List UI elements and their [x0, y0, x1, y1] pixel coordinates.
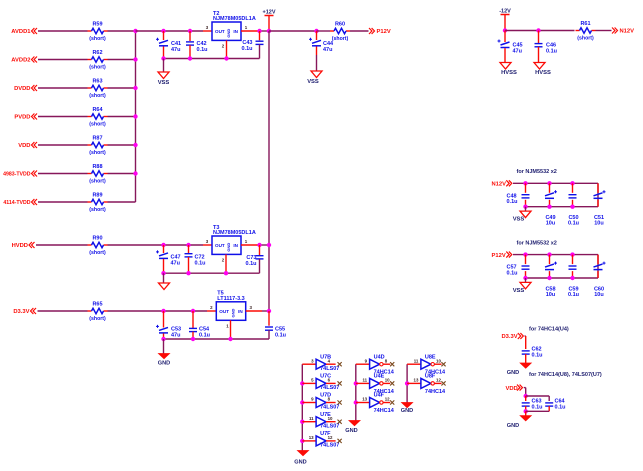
wire U4 input bus: [355, 364, 357, 420]
ground GND C62: [507, 363, 531, 376]
svg-text:U8F: U8F: [425, 374, 436, 380]
svg-text:0.1u: 0.1u: [241, 46, 252, 52]
svg-text:P12V: P12V: [492, 253, 506, 259]
wire T3 OUT pin stub: [203, 244, 212, 246]
svg-text:10u: 10u: [546, 292, 555, 298]
svg-text:47u: 47u: [171, 261, 180, 267]
junction C49 bottom: [547, 205, 551, 209]
wire C45 top stub: [504, 31, 506, 43]
buffer U7F 74LS07: [302, 431, 339, 449]
svg-text:N12V: N12V: [620, 29, 635, 35]
wire C41 top stub: [163, 31, 165, 40]
power -12V: [499, 8, 511, 30]
svg-text:VSS: VSS: [513, 217, 525, 223]
svg-text:VSS: VSS: [158, 80, 170, 86]
wire HVDD to R90: [36, 244, 88, 246]
resistor R60: [330, 22, 350, 43]
wire C43 bottom stub: [259, 44, 261, 58]
svg-text:HVSS: HVSS: [535, 70, 551, 76]
svg-text:U7B: U7B: [320, 354, 331, 360]
resistor R89: [88, 193, 108, 214]
svg-text:IN: IN: [238, 309, 243, 314]
svg-text:10: 10: [385, 378, 390, 383]
svg-text:74LS07: 74LS07: [320, 443, 339, 449]
no-connect U7D output: [338, 400, 342, 404]
svg-text:AVDD2: AVDD2: [11, 58, 30, 64]
port VDD bypass: [506, 385, 523, 392]
junction C58 top: [547, 252, 551, 256]
svg-text:for 74HC14(U4): for 74HC14(U4): [529, 327, 569, 333]
port DVDD: [14, 85, 37, 92]
svg-text:10u: 10u: [546, 221, 555, 227]
svg-text:R61: R61: [580, 21, 590, 27]
svg-text:12: 12: [436, 378, 441, 383]
svg-text:GND: GND: [158, 361, 170, 367]
svg-text:4983-TVDD: 4983-TVDD: [3, 172, 31, 178]
wire C42 bottom stub: [189, 45, 191, 58]
svg-text:74LS07: 74LS07: [320, 366, 339, 372]
wire AVDD2 to R62: [38, 59, 88, 61]
capacitor C44 47u: [309, 38, 334, 53]
junction C58 bottom: [547, 276, 551, 280]
wire C60 top stub: [597, 255, 599, 265]
regulator T5 LT1117-3.3: [210, 291, 252, 329]
wire N12V bottom rail: [526, 206, 599, 208]
junction U7 bus y402: [300, 400, 304, 404]
wire C46 top stub: [538, 31, 540, 44]
svg-text:(short): (short): [89, 179, 106, 185]
no-connect U7F output: [338, 439, 342, 443]
junction C54 top: [191, 309, 195, 313]
no-connect U7C output: [338, 381, 342, 385]
wire C73 bottom stub: [259, 259, 261, 273]
capacitor C53 47u: [156, 325, 181, 339]
wire C51 top stub: [597, 183, 599, 193]
svg-text:0.1u: 0.1u: [507, 199, 518, 205]
svg-text:(short): (short): [89, 36, 106, 42]
svg-text:HVSS: HVSS: [501, 70, 517, 76]
svg-text:R60: R60: [335, 22, 345, 28]
junction T3 GND rail: [224, 271, 228, 275]
junction C47 bottom: [161, 271, 165, 275]
svg-text:0.1u: 0.1u: [507, 270, 518, 276]
svg-text:47u: 47u: [171, 333, 180, 339]
svg-text:4114-TVDD: 4114-TVDD: [3, 200, 30, 206]
wire D3.3V to R65: [38, 310, 88, 312]
wire C64 bottom stub: [548, 406, 550, 411]
junction +12V node: [267, 29, 271, 33]
capacitor C72 0.1u: [185, 254, 206, 267]
svg-text:11: 11: [309, 416, 314, 421]
svg-text:10u: 10u: [594, 221, 603, 227]
svg-text:(short): (short): [89, 65, 106, 71]
wire C41 bottom stub: [163, 47, 165, 59]
wire R88 to bus: [108, 173, 136, 175]
wire C73 top stub: [259, 245, 261, 255]
junction T2 GND rail: [224, 56, 228, 60]
wire C62 top stub: [525, 336, 527, 349]
wire C57 bottom stub: [525, 271, 527, 278]
wire T2 IN pin stub: [241, 30, 260, 32]
wire VDD to R87: [38, 144, 88, 146]
resistor R88: [88, 164, 108, 185]
svg-text:10u: 10u: [594, 292, 603, 298]
buffer U7D 74LS07: [302, 393, 339, 411]
junction -12V node: [503, 28, 507, 32]
regulator T3 NJM78M05DL1A: [206, 225, 256, 263]
junction U4 bus y402: [354, 400, 358, 404]
junction C42 bottom: [188, 56, 192, 60]
svg-text:U4E: U4E: [374, 374, 385, 380]
wire +12V vertical bus: [268, 31, 270, 312]
svg-text:GND: GND: [401, 408, 413, 414]
junction C41 bottom: [161, 56, 165, 60]
svg-text:D3.3V: D3.3V: [13, 309, 29, 315]
svg-text:U8E: U8E: [425, 354, 436, 360]
port P12V feed: [492, 252, 512, 259]
resistor R90: [88, 236, 108, 257]
resistor R63: [88, 79, 108, 100]
svg-text:0.1u: 0.1u: [546, 49, 557, 55]
inverter U8E 74HC14: [407, 354, 446, 375]
svg-text:R59: R59: [92, 22, 102, 28]
wire 4114-TVDD to R89: [38, 201, 88, 203]
wire C45 bottom stub: [504, 48, 506, 62]
wire N12V VSS stem: [525, 207, 527, 211]
buffer U7C 74LS07: [302, 374, 339, 392]
wire C54 top stub: [192, 311, 194, 328]
junction C48 top: [523, 181, 527, 185]
svg-text:U7D: U7D: [320, 393, 331, 399]
wire C72 top stub: [188, 245, 190, 253]
wire C59 top stub: [572, 255, 574, 265]
capacitor C73 0.1u: [245, 255, 263, 267]
junction C63 bottom: [524, 409, 528, 413]
junction U7 bus y421: [300, 420, 304, 424]
wire R64 to bus: [108, 116, 136, 118]
junction C42 top: [188, 29, 192, 33]
wire R87 to bus: [108, 144, 136, 146]
capacitor C63 0.1u: [522, 399, 543, 411]
svg-text:R89: R89: [92, 193, 102, 199]
svg-text:R87: R87: [92, 136, 102, 142]
wire T2 ground rail: [164, 58, 260, 60]
capacitor C62 0.1u: [522, 347, 543, 359]
svg-text:(short): (short): [332, 36, 349, 42]
svg-text:R62: R62: [92, 50, 102, 56]
buffer U7B 74LS07: [302, 354, 339, 372]
wire N12V rail: [513, 182, 598, 184]
wire N12V bank right drop: [597, 183, 599, 206]
capacitor C41 47u: [156, 38, 181, 53]
wire C63 top stub: [525, 396, 527, 401]
wire C72 bottom stub: [188, 257, 190, 273]
junction C41 top: [161, 29, 165, 33]
junction C57 bottom: [523, 276, 527, 280]
svg-text:GND: GND: [226, 243, 231, 252]
capacitor C43 0.1u: [241, 40, 263, 52]
svg-text:(short): (short): [89, 250, 106, 256]
junction U8 bus: [405, 381, 409, 385]
svg-text:0.1u: 0.1u: [532, 405, 543, 411]
wire R60 to port P12V: [350, 30, 369, 32]
svg-text:GND: GND: [345, 428, 357, 434]
wire C57 top stub: [525, 255, 527, 265]
junction C63 top: [524, 394, 528, 398]
svg-text:GND: GND: [507, 370, 519, 376]
resistor R61: [576, 21, 596, 42]
inverter U4D 74HC14: [356, 354, 395, 375]
capacitor C42 0.1u: [186, 41, 208, 53]
no-connect U4D output: [390, 362, 394, 366]
capacitor C59: [569, 266, 577, 269]
svg-text:U4D: U4D: [374, 354, 385, 360]
wire R89 to bus: [108, 201, 136, 203]
svg-text:(short): (short): [89, 122, 106, 128]
port D3.3V: [13, 308, 36, 315]
junction left bus y173: [133, 171, 137, 175]
junction C54 bottom: [191, 337, 195, 341]
svg-text:R63: R63: [92, 79, 102, 85]
junction C53 bottom: [161, 337, 165, 341]
junction left bus y59: [133, 57, 137, 61]
svg-text:HVDD: HVDD: [12, 243, 28, 249]
ground GND T5: [158, 354, 170, 367]
no-connect U8E output: [441, 362, 445, 366]
wire T2 GND pin stub: [226, 40, 228, 58]
svg-text:0.1u: 0.1u: [532, 353, 543, 359]
wire C44 VSS stem: [316, 55, 318, 71]
junction C59 top: [570, 252, 574, 256]
capacitor C64 0.1u: [545, 399, 565, 411]
junction C48 bottom: [523, 205, 527, 209]
svg-text:0.1u: 0.1u: [275, 333, 286, 339]
svg-text:11: 11: [362, 378, 367, 383]
svg-text:GND: GND: [226, 29, 231, 38]
capacitor C58: [545, 262, 557, 270]
svg-text:47u: 47u: [323, 47, 332, 53]
no-connect U8F output: [441, 381, 445, 385]
wire C63-C64 bottom rail: [526, 410, 550, 412]
wire P12V bottom rail: [526, 277, 599, 279]
svg-text:12: 12: [385, 397, 390, 402]
buffer U7E 74LS07: [302, 412, 339, 430]
port AVDD2: [11, 57, 37, 64]
wire T5 GND pin stub: [230, 320, 232, 339]
svg-text:for 74HC14(U8), 74LS07(U7): for 74HC14(U8), 74LS07(U7): [529, 372, 602, 378]
wire VDD down: [525, 388, 527, 396]
wire R90 to T3: [108, 244, 204, 246]
svg-text:0.1u: 0.1u: [568, 292, 579, 298]
wire C50 top stub: [572, 183, 574, 193]
power +12V: [263, 9, 276, 31]
svg-text:VDD: VDD: [18, 143, 30, 149]
wire T3 IN pin stub: [241, 244, 260, 246]
ground GND C63: [507, 416, 531, 429]
wire C48 bottom stub: [525, 200, 527, 207]
resistor R87: [88, 136, 108, 157]
svg-text:R88: R88: [92, 164, 102, 170]
svg-text:OUT: OUT: [215, 243, 225, 248]
wire T3 ground rail: [164, 272, 260, 274]
wire 4983-TVDD to R88: [38, 173, 88, 175]
wire VDD port stub: [524, 387, 526, 389]
wire C44 bottom stub: [316, 47, 318, 56]
svg-text:VSS: VSS: [513, 288, 525, 294]
svg-text:IN: IN: [233, 29, 238, 34]
resistor R59: [88, 22, 108, 43]
wire DVDD to R63: [38, 87, 88, 89]
junction C44 top: [314, 29, 318, 33]
svg-text:(short): (short): [89, 316, 106, 322]
ground VSS N12V bank: [513, 211, 531, 223]
svg-text:GND: GND: [294, 460, 306, 466]
svg-text:74LS07: 74LS07: [320, 404, 339, 410]
wire bus to T2 OUT: [136, 30, 204, 32]
ground GND U8: [401, 403, 413, 414]
capacitor C51: [594, 190, 606, 198]
ground HVSS C45: [500, 63, 517, 77]
svg-text:13: 13: [414, 378, 419, 383]
wire P12V rail: [513, 254, 598, 256]
svg-text:13: 13: [362, 397, 367, 402]
wire C55 bottom stub: [268, 330, 270, 339]
svg-text:OUT: OUT: [219, 309, 229, 314]
junction C57 top: [523, 252, 527, 256]
resistor R62: [88, 50, 108, 71]
wire C51 bottom stub2: [597, 200, 599, 207]
wire C62 bottom stub: [525, 354, 527, 363]
svg-text:0.1u: 0.1u: [245, 261, 256, 267]
svg-text:OUT: OUT: [215, 29, 225, 34]
capacitor C49: [545, 190, 557, 198]
resistor R64: [88, 107, 108, 128]
svg-text:13: 13: [309, 435, 314, 440]
capacitor C50: [569, 195, 577, 198]
svg-text:R64: R64: [92, 107, 103, 113]
junction U7 bus y383: [300, 381, 304, 385]
junction left bus y31: [133, 29, 137, 33]
wire C60 bottom stub2: [597, 271, 599, 278]
port 4983-TVDD: [3, 171, 37, 178]
ground GND U7: [294, 451, 308, 466]
junction C46 top: [536, 28, 540, 32]
junction C50 top: [570, 181, 574, 185]
wire C42 top stub: [189, 31, 191, 41]
junction left bus y116: [133, 114, 137, 118]
capacitor C45 47u: [498, 40, 523, 55]
capacitor C55 0.1u: [265, 327, 286, 339]
port HVDD: [12, 242, 35, 249]
svg-text:VDD: VDD: [506, 386, 518, 392]
ground VSS P12V bank: [513, 282, 531, 294]
capacitor C47 47u: [156, 250, 181, 266]
wire R61 to port N12V: [596, 30, 612, 32]
port 4114-TVDD: [3, 199, 37, 206]
svg-text:P12V: P12V: [377, 29, 391, 35]
port VDD: [18, 142, 37, 149]
svg-text:+12V: +12V: [263, 9, 276, 15]
ground VSS T2: [158, 72, 170, 86]
svg-text:N12V: N12V: [492, 182, 507, 188]
ground VSS C44: [307, 71, 322, 85]
svg-text:GND: GND: [231, 308, 236, 317]
wire C64 drop: [548, 396, 550, 401]
svg-text:11: 11: [414, 358, 419, 363]
no-connect U7E output: [338, 420, 342, 424]
svg-text:U7F: U7F: [320, 431, 331, 437]
junction U4 bus y383: [354, 381, 358, 385]
svg-text:U7C: U7C: [320, 374, 331, 380]
wire C54 bottom stub: [192, 332, 194, 339]
port P12V: [369, 28, 391, 35]
wire U7 input bus: [301, 364, 303, 450]
wire T3 ground stem: [163, 273, 165, 283]
svg-text:for NJM5532 x2: for NJM5532 x2: [517, 169, 557, 175]
junction C73 top: [257, 243, 261, 247]
svg-text:(short): (short): [89, 150, 106, 156]
junction C50 bottom: [570, 205, 574, 209]
port PVDD: [14, 114, 37, 121]
junction C72 bottom: [186, 271, 190, 275]
capacitor C46 0.1u: [535, 43, 558, 55]
port D3.3V bypass: [502, 333, 524, 340]
wire U8 input bus: [406, 364, 408, 402]
svg-text:DVDD: DVDD: [14, 86, 30, 92]
wire C46 bottom stub: [538, 47, 540, 63]
inverter U4E 74HC14: [356, 374, 395, 395]
svg-text:74LS07: 74LS07: [320, 385, 339, 391]
capacitor C54 0.1u: [189, 327, 210, 339]
junction C59 bottom: [570, 276, 574, 280]
wire +12V node to C44: [269, 30, 317, 32]
ground GND U4: [345, 421, 360, 434]
junction T5 GND rail: [228, 337, 232, 341]
wire D3.3V port stub: [525, 335, 526, 337]
wire T5 GND stem: [163, 339, 165, 354]
wire left vertical bus: [135, 31, 137, 202]
svg-text:10: 10: [436, 358, 441, 363]
wire C58 bottom stub: [549, 271, 551, 278]
wire T5 OUT pin stub: [207, 310, 216, 312]
svg-text:IN: IN: [233, 243, 238, 248]
svg-text:R65: R65: [92, 302, 102, 308]
wire T5 ground rail: [164, 338, 270, 340]
wire C55 top stub: [268, 311, 270, 326]
svg-text:0.1u: 0.1u: [555, 405, 566, 411]
svg-text:0.1u: 0.1u: [197, 47, 208, 53]
junction left bus y88: [133, 86, 137, 90]
wire T5 IN to bus: [262, 310, 269, 312]
svg-text:(short): (short): [89, 93, 106, 99]
wire P12V VSS stem: [525, 278, 527, 282]
svg-text:74HC14: 74HC14: [425, 389, 446, 395]
wire PVDD to R64: [38, 116, 88, 118]
wire C63 bottom stub: [525, 406, 527, 411]
wire -12V rail: [505, 30, 575, 32]
svg-text:47u: 47u: [171, 47, 180, 53]
svg-text:0.1u: 0.1u: [199, 333, 210, 339]
svg-text:U4F: U4F: [374, 393, 385, 399]
junction C53 top: [161, 309, 165, 313]
wire C50 bottom stub: [572, 200, 574, 207]
svg-text:47u: 47u: [513, 49, 522, 55]
wire C47 bottom stub: [163, 259, 165, 273]
wire R63 to bus: [108, 87, 136, 89]
wire C43 top stub: [259, 31, 261, 40]
wire R59 to bus: [108, 30, 136, 32]
inverter U4F 74HC14: [356, 393, 395, 414]
